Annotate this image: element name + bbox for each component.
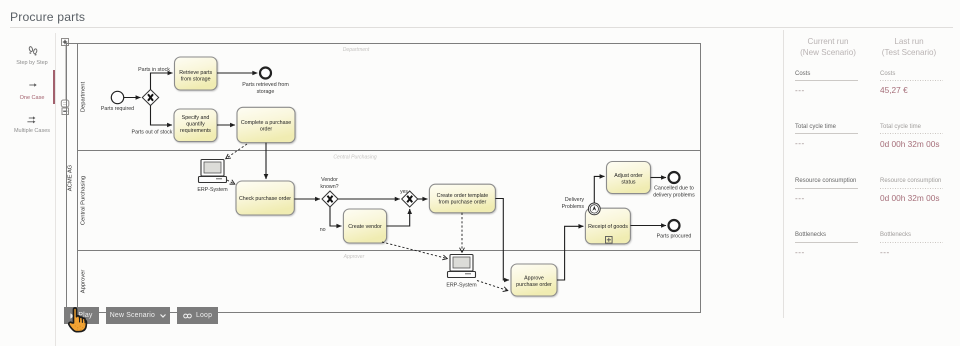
svg-text:Check purchase order: Check purchase order [239, 196, 291, 202]
svg-text:Central Purchasing: Central Purchasing [333, 155, 376, 161]
svg-text:Problems: Problems [562, 204, 585, 210]
wire: Specify to Complete purchase order [217, 124, 235, 126]
end event: Parts retrieved from storage [242, 68, 289, 96]
svg-text:Parts retrieved from: Parts retrieved from [242, 82, 289, 88]
gateway G2: Vendor known? [320, 177, 338, 207]
gateway G1 exclusive [142, 90, 158, 106]
association: ERP-System 2 to Approve purchase order [477, 281, 508, 291]
svg-text:Approver: Approver [343, 254, 365, 260]
svg-text:from storage: from storage [181, 77, 211, 83]
association: Complete purchase order to ERP-System 1 [226, 144, 247, 159]
wire: start to gateway G1 [124, 97, 141, 99]
svg-text:known?: known? [320, 184, 338, 190]
svg-text:Retrieve parts: Retrieve parts [179, 70, 212, 76]
task: Create vendor [343, 209, 386, 243]
left sidebar [55, 33, 56, 346]
row: Resource consumption [795, 178, 856, 184]
task: Retrieve parts from storage [175, 57, 218, 90]
wire: Receipt of goods to end event Parts procured [630, 225, 666, 227]
svg-text:Parts out of stock: Parts out of stock [132, 130, 173, 136]
boundary event: Delivery Problems (escalation) [562, 197, 601, 215]
pool ACME AG [67, 44, 701, 313]
svg-text:Parts procured: Parts procured [657, 234, 692, 240]
data store: ERP-System 1 (computer icon) [197, 160, 228, 194]
wire: G1 to Specify (Parts out of stock) [132, 106, 173, 136]
zoom control: minus button [62, 108, 69, 115]
row: Total cycle time [795, 124, 836, 130]
wire: Adjust order status to end event [651, 177, 667, 179]
svg-text:ERP-System: ERP-System [197, 187, 228, 193]
svg-text:order: order [260, 127, 273, 133]
svg-text:no: no [320, 227, 326, 233]
svg-text:quantify: quantify [186, 122, 205, 128]
end event: Parts procured [657, 220, 692, 240]
svg-text:ACME AG: ACME AG [68, 164, 74, 191]
data store: ERP-System 2 (computer icon) [446, 255, 477, 289]
loop button [177, 307, 219, 324]
wire: G2 no-branch to Create vendor [320, 207, 342, 233]
association: Create vendor to ERP-System 2 [382, 242, 447, 259]
gateway G3 merge [400, 189, 418, 207]
svg-text:Adjust order: Adjust order [614, 173, 643, 179]
task: Complete a purchase order [237, 107, 295, 142]
wire: Create vendor up to G3 [387, 209, 410, 226]
right panel [783, 30, 784, 318]
wire: boundary event to Adjust order status [594, 176, 604, 203]
row: Costs [795, 71, 810, 77]
svg-text:Approve: Approve [524, 275, 544, 281]
svg-text:Receipt of goods: Receipt of goods [588, 224, 628, 230]
svg-text:Create order template: Create order template [437, 193, 489, 199]
association: ERP-System 1 to Check purchase order [227, 180, 235, 184]
svg-text:Cancelled due to: Cancelled due to [654, 186, 694, 192]
wire: G3 to Create order template [418, 198, 428, 200]
wire: G1 to Retrieve parts (Parts in stock) [138, 67, 172, 90]
wire: G2 to G3 [338, 198, 400, 200]
svg-text:Central Purchasing: Central Purchasing [81, 176, 87, 225]
lane Approver [78, 251, 701, 294]
task: Create order template from purchase order [429, 184, 495, 213]
svg-text:Parts in stock: Parts in stock [138, 67, 170, 73]
task: Approve purchase order [511, 264, 557, 296]
task: Specify and quantify requirements [174, 109, 217, 142]
svg-text:storage: storage [257, 89, 275, 95]
svg-text:requirements: requirements [180, 128, 211, 134]
wire: Retrieve parts to end event [217, 72, 257, 74]
zoom control: plus button [62, 39, 69, 109]
svg-text:Department: Department [343, 47, 370, 53]
svg-text:Delivery: Delivery [565, 197, 584, 203]
start event: Parts required [101, 91, 134, 112]
end event: Cancelled due to delivery problems [653, 172, 695, 199]
multiple-cases arrows icon [27, 116, 35, 123]
step-by-step footprints icon [28, 46, 37, 55]
wire: Check purchase order to gateway G2 [294, 198, 320, 200]
svg-text:Create vendor: Create vendor [348, 224, 382, 230]
svg-text:yes: yes [400, 189, 408, 195]
svg-text:Vendor: Vendor [321, 177, 338, 183]
task: Adjust order status [607, 162, 651, 194]
hand cursor [66, 307, 89, 334]
zoom control: slider handle [61, 100, 69, 107]
wire: Complete purchase order down to Check purchase order [265, 143, 267, 179]
svg-text:Complete a purchase: Complete a purchase [241, 120, 291, 126]
svg-text:status: status [621, 179, 635, 185]
svg-text:Department: Department [81, 81, 87, 112]
page title [10, 11, 85, 23]
svg-text:Parts required: Parts required [101, 106, 134, 112]
new scenario button [106, 307, 170, 324]
wire: Approve purchase order to Receipt of goods [557, 226, 583, 280]
svg-text:ERP-System: ERP-System [446, 283, 477, 289]
row: Bottlenecks [795, 232, 826, 238]
wire: Create order template to Approve purchase order [495, 199, 509, 281]
svg-text:from purchase order: from purchase order [439, 200, 487, 206]
one-case arrow icon [29, 83, 36, 87]
svg-text:Approver: Approver [81, 270, 87, 294]
svg-text:delivery problems: delivery problems [653, 193, 695, 199]
association: Create order template down to ERP-System 2 [461, 213, 463, 252]
svg-text:purchase order: purchase order [516, 282, 552, 288]
task: Check purchase order [236, 181, 294, 215]
lane Department [81, 47, 370, 112]
play button [64, 307, 100, 324]
lane Central Purchasing [78, 151, 701, 226]
task: Receipt of goods (subprocess) [585, 208, 630, 244]
svg-text:Specify and: Specify and [182, 115, 210, 121]
